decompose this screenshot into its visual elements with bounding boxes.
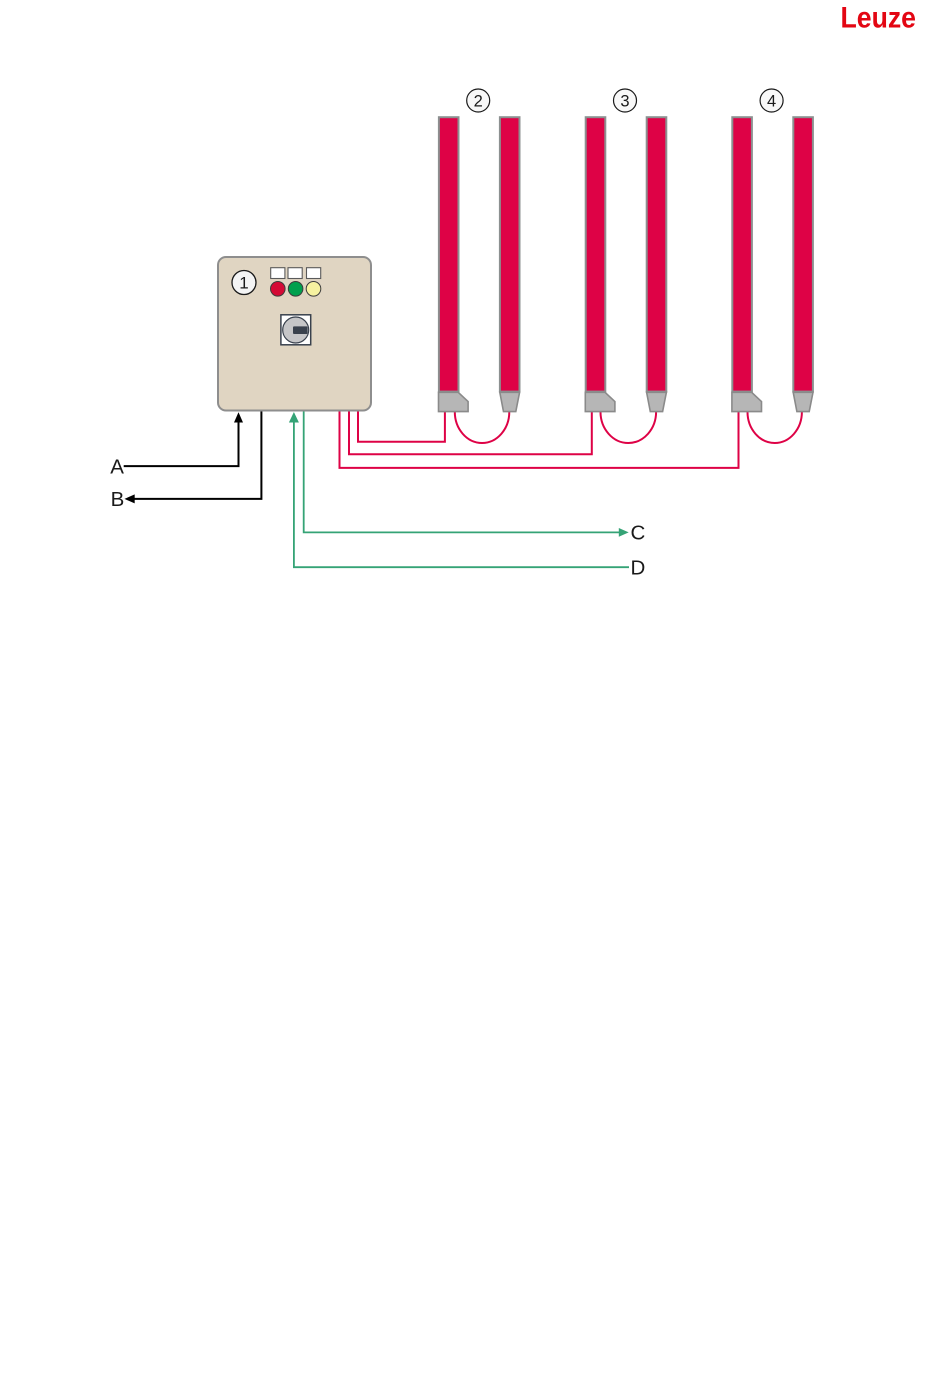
U-cable pair 3 <box>601 412 657 443</box>
crimson cable from box to pair 3 <box>349 412 592 455</box>
light curtain pair 3: receiver bar <box>647 117 667 411</box>
svg-text:4: 4 <box>767 92 776 110</box>
svg-text:3: 3 <box>620 92 629 110</box>
indicator LED green <box>288 282 303 297</box>
light curtain pair 3: transmitter bar <box>585 117 615 411</box>
svg-text:2: 2 <box>474 92 483 110</box>
svg-text:B: B <box>111 488 125 511</box>
crimson cable from box to pair 4 <box>340 412 739 468</box>
label B <box>111 488 125 511</box>
indicator LED red <box>271 282 286 297</box>
label circle 4 <box>760 89 783 112</box>
U-cable pair 2 <box>455 412 510 443</box>
label circle 2 <box>467 89 490 112</box>
svg-text:C: C <box>631 522 646 545</box>
svg-text:A: A <box>110 456 124 479</box>
crimson cable from box to pair 2 <box>358 412 445 442</box>
indicator window squares <box>271 268 321 279</box>
wire B (black, out of box) <box>125 412 262 504</box>
light curtain pair 4: receiver bar <box>793 117 813 411</box>
key switch <box>281 315 311 345</box>
light curtain pair 4: transmitter bar <box>732 117 762 411</box>
Leuze logo <box>841 2 917 35</box>
wire C (green, out of box to right arrow) <box>304 412 629 537</box>
indicator LED yellow <box>306 282 321 297</box>
label D <box>631 557 646 580</box>
light curtain pair 2: receiver bar <box>500 117 520 411</box>
control box 1 (beige enclosure) <box>218 257 371 411</box>
U-cable pair 4 <box>748 412 802 443</box>
label A <box>110 456 124 479</box>
wire A (black, into box) <box>124 412 243 466</box>
wire D (green, into box with up arrow) <box>289 412 629 567</box>
label circle 3 <box>614 89 637 112</box>
svg-text:Leuze: Leuze <box>841 2 917 35</box>
svg-text:D: D <box>631 557 646 580</box>
label circle 1 <box>232 271 256 295</box>
label C <box>631 522 646 545</box>
light curtain pair 2: transmitter bar <box>439 117 469 411</box>
svg-text:1: 1 <box>239 274 248 293</box>
